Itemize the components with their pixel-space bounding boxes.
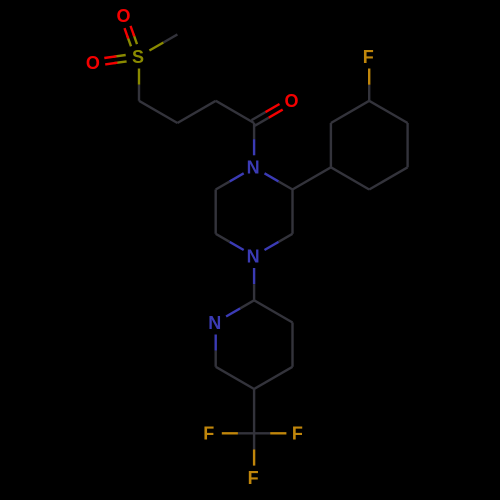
wire pyridine C2-N1 bond (C2y-N1y): [226, 300, 254, 316]
wire pyridine C4-C3 bond (C4y-C3y): [291, 323, 293, 367]
svg-text:N: N: [247, 158, 260, 178]
svg-text:N: N: [208, 313, 221, 333]
wire C-F bond left (CT-F2): [222, 432, 254, 434]
wire chain C-C bond (C2-C3): [177, 101, 215, 123]
wire pyridine N1-C6 bond (N1y-C6y): [214, 335, 216, 367]
wire carbonyl C=O double bond (CO-O3): [252, 104, 283, 126]
wire pyridine-CF3 bond (C5y-CT): [253, 389, 255, 433]
wire piperazine N1-C2 bond (N1-C2p): [265, 173, 293, 189]
wire S=O left double bond (S-O2): [104, 55, 126, 64]
svg-text:F: F: [363, 47, 374, 67]
wire piperazine-phenyl bond (C2p-C1b): [293, 167, 331, 189]
wire amide C-N bond (CO-N1): [253, 123, 255, 155]
wire pyridine C3-C2 bond (C3y-C2y): [254, 300, 292, 322]
wire chain C-C bond (C1-C2): [139, 101, 177, 123]
wire S-CH2 bond (S-C1): [138, 69, 140, 101]
wire piperazine C5-C6 bond (C5p-C6p): [214, 190, 216, 234]
svg-text:S: S: [132, 47, 144, 67]
wire C-F bond bottom (CT-F4): [253, 433, 255, 465]
wire S=O top double bond (S-O1): [125, 26, 138, 46]
wire piperazine N4-C5 bond (N4-C5p): [216, 234, 244, 250]
svg-text:F: F: [248, 468, 259, 488]
wire benzene ring bond (C6b-C1b): [331, 167, 369, 189]
svg-text:O: O: [284, 91, 298, 111]
svg-text:O: O: [86, 53, 100, 73]
wire chain C-C(=O) bond (C3-CO): [216, 101, 254, 123]
svg-text:O: O: [116, 6, 130, 26]
wire benzene ring bond (C1b-C2b): [330, 123, 332, 167]
wire piperazine C6-N1 bond (C6p-N1): [216, 173, 244, 189]
wire benzene ring bond (C3b-C4b): [369, 101, 407, 123]
wire piperazine-pyridine bond (N4-C2y): [253, 268, 255, 300]
svg-text:F: F: [292, 424, 303, 444]
wire benzene ring bond (C5b-C6b): [369, 167, 407, 189]
wire benzene ring bond (C4b-C5b): [406, 123, 408, 167]
svg-text:N: N: [247, 246, 260, 266]
wire aryl C-F bond (C3b-F1): [368, 69, 370, 101]
wire pyridine C6-C5 bond (C6y-C5y): [216, 367, 254, 389]
wire benzene ring bond (C2b-C3b): [331, 101, 369, 123]
wire C-F bond right (CT-F3): [254, 432, 286, 434]
wire pyridine C5-C4 bond (C5y-C4y): [254, 367, 292, 389]
wire S-CH3 methyl bond (S-CM): [149, 34, 177, 50]
wire piperazine C3-N4 bond (C3p-N4): [265, 234, 293, 250]
wire piperazine C2-C3 bond (C2p-C3p): [291, 190, 293, 234]
svg-text:F: F: [203, 424, 214, 444]
